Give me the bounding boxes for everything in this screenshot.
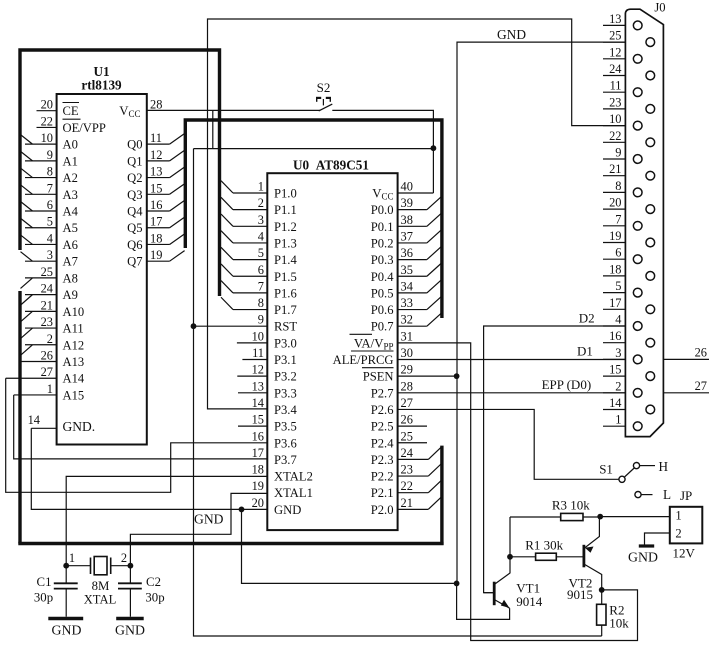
svg-text:10k: 10k [609, 616, 629, 631]
pin 20 of J0 [603, 196, 655, 214]
svg-text:S1: S1 [599, 462, 613, 477]
svg-text:Q3: Q3 [127, 188, 142, 202]
svg-text:PSEN: PSEN [363, 370, 394, 384]
svg-text:GND: GND [628, 550, 658, 565]
label rtl8139 [81, 78, 122, 93]
svg-text:11: 11 [150, 131, 162, 145]
svg-text:38: 38 [401, 213, 413, 227]
svg-text:P2.2: P2.2 [371, 470, 394, 484]
pin 9 RST of U0 [258, 313, 298, 334]
svg-text:10: 10 [41, 131, 53, 145]
svg-text:30p: 30p [34, 591, 53, 605]
svg-text:18: 18 [150, 231, 162, 245]
svg-text:9: 9 [258, 313, 264, 327]
svg-text:OE/VPP: OE/VPP [63, 121, 106, 135]
svg-text:2: 2 [47, 332, 53, 346]
svg-text:27: 27 [41, 365, 53, 379]
svg-text:XTAL2: XTAL2 [274, 470, 313, 484]
svg-text:19: 19 [252, 479, 264, 493]
svg-text:P3.1: P3.1 [274, 353, 297, 367]
label XTAL [84, 593, 117, 607]
label H [659, 459, 669, 474]
svg-text:P0.3: P0.3 [371, 253, 394, 267]
connector J0 body [625, 9, 663, 436]
pin 15 Q3 of U1 [127, 181, 185, 202]
pin 35 P0.4 of U0 [371, 263, 442, 284]
pin 11 of J0 [603, 79, 642, 97]
svg-text:12: 12 [609, 45, 621, 59]
IC U1 rtl8139 body [57, 94, 147, 445]
wire U1 GND to U0 GND [31, 428, 267, 509]
svg-text:22: 22 [401, 479, 413, 493]
svg-text:33: 33 [401, 296, 413, 310]
label U0 AT89C51 [293, 157, 369, 172]
pin 29 PSEN of U0 [362, 363, 413, 384]
pin 23 of J0 [603, 95, 655, 113]
svg-text:21: 21 [41, 298, 53, 312]
pin 22 of J0 [603, 129, 655, 147]
svg-text:18: 18 [609, 262, 621, 276]
label GND near U0 pin20 [194, 512, 224, 527]
svg-text:P1.2: P1.2 [274, 220, 297, 234]
svg-text:28: 28 [401, 379, 413, 393]
svg-text:P0.7: P0.7 [371, 320, 394, 334]
svg-text:9014: 9014 [516, 594, 543, 609]
crystal XTAL 8M [91, 557, 111, 575]
pin 17 P3.7 of U0 [252, 446, 297, 467]
pin 18 Q6 of U1 [127, 231, 185, 252]
pin 21 A10 of U1 [21, 298, 85, 322]
svg-text:9: 9 [615, 146, 621, 160]
junction U0 GND pin [239, 507, 245, 513]
switch S2 [316, 98, 332, 111]
wire D2 J0 pin4 to VT1 base [484, 326, 626, 593]
svg-text:20: 20 [41, 98, 53, 112]
svg-text:12: 12 [150, 148, 162, 162]
bus thick left/top/right of U1 box [20, 50, 220, 296]
pin 13 P3.3 of U0 [238, 379, 297, 400]
svg-text:6: 6 [615, 246, 621, 260]
pin 23 A11 of U1 [21, 315, 84, 339]
svg-text:1: 1 [615, 413, 621, 427]
pin 1 P1.0 of U0 [221, 180, 297, 201]
pin 40 VCC of U0 [372, 180, 433, 202]
svg-text:34: 34 [401, 279, 413, 293]
svg-text:A0: A0 [63, 138, 78, 152]
svg-text:4: 4 [258, 229, 264, 243]
net label 27 on J0 right [663, 379, 709, 393]
svg-text:A12: A12 [63, 338, 85, 352]
svg-text:A11: A11 [63, 322, 84, 336]
bus thick left lower segment [18, 291, 21, 544]
svg-text:24: 24 [609, 62, 621, 76]
pin 8 A2 of U1 [21, 165, 78, 186]
svg-text:5: 5 [615, 279, 621, 293]
pin 4 A6 of U1 [21, 231, 78, 252]
junction PSEN-GND [454, 373, 460, 379]
svg-text:EPP (D0): EPP (D0) [542, 377, 592, 392]
svg-text:31: 31 [401, 329, 413, 343]
pin 13 of J0 [603, 12, 642, 30]
svg-text:19: 19 [609, 229, 621, 243]
svg-text:P3.0: P3.0 [274, 336, 297, 350]
bus thick bottom rail [18, 542, 443, 545]
svg-text:27: 27 [401, 396, 413, 410]
svg-text:P2.4: P2.4 [371, 436, 394, 450]
svg-text:P3.4: P3.4 [274, 403, 297, 417]
junction GND net corner [454, 581, 460, 587]
pin 33 P0.6 of U0 [371, 296, 442, 317]
pin 32 P0.7 of U0 [371, 313, 442, 334]
svg-text:H: H [659, 459, 669, 474]
pin 14 of J0 [603, 396, 655, 414]
label GND top [497, 27, 526, 42]
pin 7 P1.6 of U0 [221, 279, 297, 300]
svg-text:36: 36 [401, 246, 413, 260]
IC U0 AT89C51 body [267, 173, 397, 530]
pin 26 P2.5 of U0 [371, 413, 427, 434]
wire EPP to J0 pin2 [398, 392, 626, 394]
pin 6 of J0 [603, 246, 642, 264]
label node 2 [121, 551, 127, 565]
pin 16 Q4 of U1 [127, 198, 185, 219]
svg-text:4: 4 [615, 313, 621, 327]
wire P2.6 to S1 [398, 409, 619, 479]
svg-text:GND: GND [194, 512, 224, 527]
svg-text:RST: RST [274, 320, 297, 334]
pin 30 ALE/PRCG of U0 [333, 346, 413, 367]
wire crystal node1 to plate [66, 565, 90, 567]
pin 28 VCC of U1 [119, 98, 162, 119]
resistor R3 [510, 513, 600, 520]
svg-text:C1: C1 [37, 575, 52, 589]
ground at JP [628, 546, 658, 565]
svg-text:XTAL: XTAL [84, 593, 117, 607]
pin 25 of J0 [603, 29, 655, 47]
svg-text:18: 18 [252, 463, 264, 477]
capacitor C2 [118, 566, 142, 617]
resistor R1 [510, 553, 584, 560]
pin 9 A1 of U1 [21, 148, 78, 169]
wire U0 GND down to GND net [242, 509, 457, 583]
svg-text:11: 11 [252, 346, 264, 360]
label node 1 [69, 551, 75, 565]
pin 27 P2.6 of U0 [371, 396, 413, 417]
svg-text:S2: S2 [317, 80, 331, 95]
svg-text:11: 11 [610, 79, 622, 93]
svg-text:26: 26 [41, 349, 53, 363]
svg-text:5: 5 [258, 246, 264, 260]
pin 24 A9 of U1 [21, 282, 78, 306]
pin 22 P2.1 of U0 [371, 479, 442, 500]
svg-text:15: 15 [609, 363, 621, 377]
pin 16 of J0 [603, 329, 655, 347]
wire XTAL1 to crystal node2 [130, 493, 267, 565]
svg-text:P0.2: P0.2 [371, 236, 394, 250]
svg-text:Q2: Q2 [127, 171, 142, 185]
svg-text:8: 8 [615, 179, 621, 193]
pin 25 P2.4 of U0 [371, 429, 427, 450]
pin 11 Q0 of U1 [127, 131, 185, 152]
svg-text:P3.6: P3.6 [274, 436, 297, 450]
svg-text:A2: A2 [63, 171, 78, 185]
pin 16 P3.6 of U0 [252, 429, 297, 450]
svg-text:GND: GND [274, 503, 301, 517]
wire U1 VCC pin28 to S2 [147, 109, 320, 111]
svg-text:L: L [663, 487, 671, 502]
svg-text:rtl8139: rtl8139 [81, 78, 122, 93]
svg-text:15: 15 [150, 181, 162, 195]
svg-text:6: 6 [47, 198, 53, 212]
svg-text:CE: CE [63, 104, 79, 118]
pin 5 P1.4 of U0 [221, 246, 297, 267]
label R3 10k [552, 498, 590, 513]
svg-text:P3.7: P3.7 [274, 453, 297, 467]
svg-text:3: 3 [615, 346, 621, 360]
junction node 2 [127, 563, 133, 569]
pin 6 P1.5 of U0 [221, 263, 297, 284]
pin 28 P2.7 of U0 [371, 379, 413, 400]
svg-text:P2.3: P2.3 [371, 453, 394, 467]
svg-text:3: 3 [258, 213, 264, 227]
svg-text:P2.1: P2.1 [371, 486, 394, 500]
svg-text:6: 6 [258, 263, 264, 277]
wire plate to crystal node2 [111, 565, 131, 567]
svg-text:P1.5: P1.5 [274, 270, 297, 284]
svg-text:A10: A10 [63, 305, 85, 319]
svg-text:P2.0: P2.0 [371, 503, 394, 517]
pin 1 A15 of U1 [14, 382, 85, 403]
wire VA/VPP down to R2 loop [398, 343, 638, 641]
label VT1 [516, 581, 540, 596]
svg-text:12V: 12V [673, 546, 696, 561]
wire A15 to P3.7 [14, 395, 268, 459]
svg-text:J0: J0 [654, 1, 665, 15]
pin 24 of J0 [603, 62, 655, 80]
junction RST [191, 323, 197, 329]
wire short bridge VCC rows [212, 110, 214, 148]
svg-text:A1: A1 [63, 154, 78, 168]
svg-text:3: 3 [47, 248, 53, 262]
svg-text:GND.: GND. [63, 419, 96, 434]
svg-text:P2.5: P2.5 [371, 420, 394, 434]
svg-text:XTAL1: XTAL1 [274, 486, 313, 500]
svg-text:P0.6: P0.6 [371, 303, 394, 317]
svg-text:Q6: Q6 [127, 238, 142, 252]
wire GND to VT1 emitter [457, 583, 510, 619]
label S1 [599, 462, 613, 477]
svg-text:7: 7 [47, 181, 53, 195]
pin 15 of J0 [603, 363, 655, 381]
ground under C2 [115, 619, 145, 638]
pin 8 of J0 [603, 179, 642, 197]
svg-text:7: 7 [258, 279, 264, 293]
svg-text:A7: A7 [63, 255, 78, 269]
svg-text:U0 AT89C51: U0 AT89C51 [293, 157, 369, 172]
svg-text:16: 16 [252, 429, 264, 443]
pin 1 of J0 [603, 413, 642, 431]
svg-text:17: 17 [252, 446, 264, 460]
svg-text:P1.7: P1.7 [274, 303, 297, 317]
svg-text:A14: A14 [63, 372, 85, 386]
svg-text:30: 30 [401, 346, 413, 360]
svg-text:Q7: Q7 [127, 255, 142, 269]
svg-text:23: 23 [401, 463, 413, 477]
pin 19 of J0 [603, 229, 655, 247]
pin 23 P2.2 of U0 [371, 463, 442, 484]
pin 11 P3.1 of U0 [242, 346, 296, 367]
svg-text:14: 14 [28, 413, 40, 427]
svg-text:21: 21 [401, 496, 413, 510]
wire S2 to VCC junction [332, 110, 433, 148]
svg-text:30p: 30p [145, 591, 164, 605]
svg-text:12: 12 [252, 363, 264, 377]
svg-text:P2.6: P2.6 [371, 403, 394, 417]
svg-text:P0.1: P0.1 [371, 220, 394, 234]
svg-text:5: 5 [47, 215, 53, 229]
pin 2 P1.1 of U0 [221, 196, 297, 217]
pin 12 Q1 of U1 [127, 148, 185, 169]
wire J0 pin13-area to P3.4 vertical [208, 19, 626, 409]
svg-text:10: 10 [609, 112, 621, 126]
wire D1 ALE to J0 pin3 [398, 359, 626, 361]
svg-text:8M: 8M [92, 579, 110, 593]
pin 14 P3.4 of U0 [252, 396, 298, 417]
pin 19 Q7 of U1 [127, 248, 185, 269]
label 9015 [567, 587, 593, 602]
svg-text:P0.5: P0.5 [371, 286, 394, 300]
junction VCC [431, 145, 437, 151]
pin 4 of J0 [603, 313, 642, 331]
svg-text:19: 19 [150, 248, 162, 262]
svg-text:20: 20 [252, 496, 264, 510]
svg-text:10: 10 [252, 329, 264, 343]
svg-text:20: 20 [609, 196, 621, 210]
pin 17 Q5 of U1 [127, 215, 185, 236]
bus thick right lower segment of U0 box [440, 446, 443, 545]
svg-text:7: 7 [615, 212, 621, 226]
pin 5 A5 of U1 [21, 215, 78, 236]
svg-text:17: 17 [150, 215, 162, 229]
label JP [680, 488, 692, 503]
svg-text:9015: 9015 [567, 587, 593, 602]
svg-text:17: 17 [609, 296, 621, 310]
pin 8 P1.7 of U0 [221, 296, 297, 317]
label C1 30p [34, 591, 53, 605]
svg-text:16: 16 [609, 329, 621, 343]
pin 6 A4 of U1 [21, 198, 79, 219]
svg-text:28: 28 [150, 98, 162, 112]
svg-text:P1.3: P1.3 [274, 236, 297, 250]
svg-text:14: 14 [609, 396, 621, 410]
label 9014 [516, 594, 543, 609]
pin 38 P0.1 of U0 [371, 213, 442, 234]
svg-text:37: 37 [401, 229, 413, 243]
transistor VT2 9015 [584, 517, 602, 590]
svg-text:2: 2 [121, 551, 127, 565]
pin 3 A7 of U1 [21, 248, 78, 269]
svg-text:R3 10k: R3 10k [552, 498, 590, 513]
svg-text:2: 2 [615, 379, 621, 393]
svg-text:R1 30k: R1 30k [525, 538, 563, 553]
junction R3-JP1-VT2 [597, 514, 603, 520]
svg-text:Q5: Q5 [127, 221, 142, 235]
pin 12 P3.2 of U0 [237, 363, 296, 384]
svg-text:8: 8 [47, 165, 53, 179]
svg-text:A3: A3 [63, 188, 78, 202]
pin 24 P2.3 of U0 [371, 446, 442, 467]
svg-text:Q0: Q0 [127, 138, 142, 152]
svg-text:P0.4: P0.4 [371, 270, 394, 284]
pin 3 of J0 [603, 346, 642, 364]
svg-text:P3.2: P3.2 [274, 370, 297, 384]
svg-text:2: 2 [258, 196, 264, 210]
pin 26 A13 of U1 [21, 349, 85, 370]
svg-text:C2: C2 [146, 575, 161, 589]
switch S1 [619, 463, 640, 483]
wire GND top to J0 pin25 [457, 42, 625, 583]
svg-text:40: 40 [401, 180, 413, 194]
label JP pin1 [675, 508, 681, 522]
svg-text:ALE/PRCG: ALE/PRCG [333, 353, 394, 367]
svg-text:21: 21 [609, 162, 621, 176]
label C2 [146, 575, 161, 589]
pin 10 P3.0 of U0 [237, 329, 297, 350]
svg-text:A6: A6 [63, 238, 78, 252]
svg-text:29: 29 [401, 363, 413, 377]
pin 31 VA/VPP of U0 [350, 329, 413, 351]
wire VCC junction down to U0 pin40 [432, 148, 434, 193]
connector JP 12V [670, 507, 703, 544]
svg-text:A13: A13 [63, 355, 85, 369]
svg-text:1: 1 [47, 382, 53, 396]
svg-text:22: 22 [41, 114, 53, 128]
pin 20 GND of U0 [252, 496, 302, 517]
svg-text:GND: GND [52, 623, 82, 638]
pin 20 CE of U1 [37, 98, 80, 119]
pin 15 P3.5 of U0 [238, 413, 297, 434]
pin 17 of J0 [603, 296, 655, 314]
label 8M [92, 579, 110, 593]
contact L [635, 492, 653, 498]
svg-text:JP: JP [680, 488, 692, 503]
svg-text:1: 1 [258, 180, 264, 194]
wire PSEN to GND vertical [398, 375, 457, 377]
svg-text:GND: GND [115, 623, 145, 638]
svg-text:16: 16 [150, 198, 162, 212]
svg-text:Q1: Q1 [127, 154, 142, 168]
svg-text:13: 13 [609, 12, 621, 26]
svg-text:GND: GND [497, 27, 526, 42]
label L [663, 487, 671, 502]
junction node 1 [63, 563, 69, 569]
label D2 [579, 311, 595, 326]
pin 22 OE/VPP of U1 [37, 114, 106, 135]
pin 34 P0.5 of U0 [371, 279, 442, 300]
junction VT2 collector R2 [599, 587, 605, 593]
pin 10 of J0 [603, 112, 642, 130]
pin 36 P0.3 of U0 [371, 246, 442, 267]
svg-text:P2.7: P2.7 [371, 386, 394, 400]
svg-text:9: 9 [47, 148, 53, 162]
pin 7 A3 of U1 [21, 181, 78, 202]
svg-text:27: 27 [695, 379, 707, 393]
svg-text:P3.3: P3.3 [274, 386, 297, 400]
resistor R2 [597, 590, 606, 636]
net label 26 on J0 right [663, 345, 709, 359]
pin 4 P1.3 of U0 [221, 229, 297, 250]
pin 18 of J0 [603, 262, 655, 280]
